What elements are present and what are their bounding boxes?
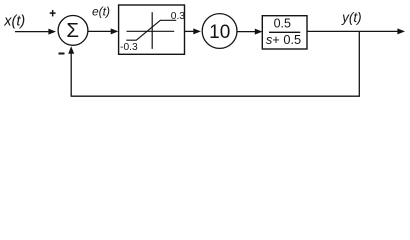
svg-text:-0.3: -0.3 [120, 42, 138, 53]
feedback wire [71, 31, 359, 96]
svg-text:Σ: Σ [66, 19, 79, 42]
svg-text:x(t): x(t) [3, 13, 25, 29]
minus sign [59, 53, 65, 55]
svg-text:y(t): y(t) [341, 10, 362, 25]
saturation v-axis [151, 12, 153, 49]
svg-text:10: 10 [209, 22, 230, 43]
wire saturation to gain [185, 30, 195, 32]
svg-text:e(t): e(t) [92, 4, 110, 18]
transfer function block 0.5/(s+0.5) [262, 16, 307, 49]
gain block 10 [202, 14, 237, 49]
summing junction U1 [58, 16, 88, 46]
saturation curve [126, 20, 176, 40]
svg-text:0.5: 0.5 [274, 16, 291, 30]
plus sign [50, 12, 56, 14]
svg-text:s+ 0.5: s+ 0.5 [266, 32, 301, 47]
wire gain to transfer function [237, 31, 257, 33]
fraction bar [269, 31, 300, 33]
svg-text:0.3: 0.3 [171, 11, 185, 22]
wire input [15, 31, 50, 33]
saturation block [119, 5, 185, 54]
wire output [307, 30, 399, 32]
saturation h-axis [127, 30, 175, 32]
wire e(t) to saturation [88, 30, 113, 32]
